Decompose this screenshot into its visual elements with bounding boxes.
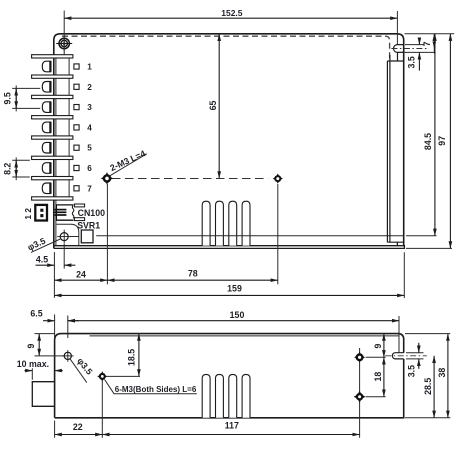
terminal square 3	[74, 105, 79, 110]
vent slot 3 (top view)	[229, 201, 237, 245]
top view case outline	[54, 34, 404, 249]
terminal screw 1	[42, 61, 50, 72]
terminal bar 1	[32, 55, 73, 58]
SVR1 square	[81, 230, 93, 243]
terminal bar 3	[32, 95, 73, 98]
svg-text:4: 4	[87, 123, 92, 132]
leader screw hole (side view)	[35, 355, 64, 357]
svg-text:9.5: 9.5	[3, 92, 13, 104]
terminal square 6	[74, 165, 79, 170]
svg-text:18.5: 18.5	[127, 349, 137, 366]
side view case outline	[55, 334, 404, 418]
CN100 housing	[56, 205, 73, 220]
terminal bar 2	[32, 75, 73, 78]
vent slot 4 (top view)	[242, 201, 250, 245]
vent slot 2 (side view)	[216, 374, 224, 417]
ext top edge left (side view)	[35, 333, 56, 335]
svg-text:65: 65	[208, 101, 218, 111]
centerline mounting holes (side view)	[359, 348, 361, 438]
side view cover lip line	[90, 335, 399, 337]
ext bottom edge right (side view)	[405, 417, 450, 419]
top view inner left wall line	[55, 57, 57, 246]
svg-text:1: 1	[87, 63, 92, 72]
terminal screw 3	[42, 102, 50, 113]
2-pin connector	[35, 205, 47, 221]
terminal screw 5	[42, 142, 50, 153]
svg-text:152.5: 152.5	[221, 8, 243, 18]
terminal screw 7	[42, 183, 50, 194]
ext bottom edge right	[406, 247, 452, 249]
leader dia3.5 (side view)	[70, 359, 87, 383]
dim 10 max	[25, 370, 33, 372]
svg-text:6: 6	[87, 164, 92, 173]
ext line right keyhole	[396, 11, 398, 45]
svg-text:7: 7	[422, 41, 432, 46]
screw hole dia3.5 (side view)	[62, 350, 74, 362]
ext slot bottom	[399, 51, 436, 53]
ext case left down	[53, 252, 55, 298]
ext screw hole up	[67, 316, 69, 339]
dim 22	[55, 434, 103, 436]
CN100 mating bars	[74, 204, 84, 207]
dim 18	[383, 357, 385, 396]
svg-text:5: 5	[87, 144, 92, 153]
dim 3.5 (side view)	[418, 343, 420, 353]
keyhole centerline	[391, 48, 428, 50]
svg-text:SVR1: SVR1	[77, 220, 100, 230]
dim 9 (side view right)	[383, 334, 385, 358]
pcb corner line	[56, 224, 78, 245]
svg-text:38: 38	[437, 368, 447, 378]
terminal square 5	[74, 145, 79, 150]
ext case left up	[54, 315, 56, 340]
dim 150	[68, 320, 399, 322]
M3 hole (side view)	[97, 371, 107, 381]
keyhole slot (side view)	[392, 353, 403, 359]
terminal bar 8	[32, 197, 73, 200]
leader hole B	[366, 396, 386, 398]
M3 hole 1	[101, 172, 114, 185]
mounting hole A (side view)	[354, 352, 365, 363]
hole dia3.5 (top view)	[57, 230, 71, 244]
ext slot top (side view)	[406, 352, 424, 354]
dim 97	[449, 34, 451, 249]
ext M3 down (side view)	[101, 380, 103, 438]
terminal bar 4	[32, 116, 73, 119]
dim 152.5	[64, 17, 397, 19]
ext slot top	[405, 44, 424, 46]
terminal bar 7	[32, 177, 73, 180]
ext keyhole up (side view)	[398, 316, 400, 353]
corner screw hole (top-left)	[56, 36, 72, 52]
terminal body right edge	[68, 56, 70, 199]
vent slot 2 (top view)	[216, 201, 224, 245]
terminal square 1	[74, 64, 79, 69]
terminal screw 2	[42, 82, 50, 93]
ext slot bottom (side view)	[406, 358, 424, 360]
ext M3 hole 1 down	[106, 184, 108, 284]
ext block left	[31, 368, 33, 380]
vent slot 3 (side view)	[229, 374, 237, 417]
flange bar (top view)	[387, 61, 403, 242]
leader 6-M3	[105, 379, 197, 393]
svg-text:84.5: 84.5	[423, 133, 433, 150]
ext top edge right	[405, 33, 455, 35]
svg-text:24: 24	[76, 269, 86, 279]
svg-text:150: 150	[230, 310, 245, 320]
ext inner bottom right	[406, 235, 437, 237]
svg-text:3.5: 3.5	[406, 365, 416, 377]
dim 65	[218, 34, 220, 179]
dim 159	[54, 294, 404, 296]
centerline between M3 holes	[112, 178, 268, 180]
svg-text:18: 18	[373, 372, 383, 382]
terminal bar 5	[32, 136, 73, 139]
keyhole centerline (side view)	[385, 355, 427, 357]
leader bar 7	[12, 176, 30, 178]
ext hole dia3.5 down	[63, 244, 65, 269]
terminal bar 6	[32, 156, 73, 159]
ext top edge right (side view)	[405, 333, 450, 335]
terminal screw 6	[42, 163, 50, 174]
dim 18.5	[138, 334, 140, 377]
vent slot 1 (side view)	[202, 374, 210, 417]
svg-text:8.2: 8.2	[3, 163, 13, 175]
svg-text:159: 159	[227, 284, 242, 294]
M3 hole 2	[273, 174, 283, 184]
svg-text:10 max.: 10 max.	[17, 359, 49, 369]
link hole to pcb	[70, 236, 79, 238]
terminal screw 4	[42, 122, 50, 133]
leader M3 hole (side view)	[107, 375, 140, 377]
ext case right down	[403, 252, 405, 298]
dim 78	[107, 279, 277, 281]
svg-text:78: 78	[188, 269, 198, 279]
leader bar 6	[12, 159, 30, 161]
CN100 pins	[55, 210, 66, 215]
svg-text:3: 3	[87, 103, 92, 112]
terminal square 2	[74, 84, 79, 89]
top view inner bottom line	[96, 235, 403, 237]
svg-text:7: 7	[87, 184, 92, 193]
svg-text:2: 2	[87, 83, 92, 92]
leader terminal 3	[12, 107, 40, 109]
leader 2-M3	[110, 154, 147, 176]
svg-text:97: 97	[437, 136, 447, 146]
svg-text:6.5: 6.5	[30, 309, 42, 319]
dim 117	[102, 434, 359, 436]
svg-text:28.5: 28.5	[423, 378, 433, 395]
svg-text:9: 9	[373, 344, 383, 349]
leader terminal 2	[12, 87, 40, 89]
leader dia3.5	[31, 239, 60, 252]
svg-text:4.5: 4.5	[36, 254, 48, 264]
svg-text:CN100: CN100	[78, 208, 105, 218]
dim 9 (side view left)	[38, 334, 40, 356]
svg-text:1 2: 1 2	[24, 208, 33, 220]
keyhole slot (top view)	[390, 45, 404, 61]
leader hole A	[366, 356, 386, 358]
dim 7	[433, 34, 435, 49]
dim 6.5	[43, 320, 55, 322]
dim 8.2	[15, 157, 17, 180]
svg-text:6-M3(Both Sides) L=6: 6-M3(Both Sides) L=6	[115, 384, 197, 394]
ext case left down (side view)	[54, 421, 56, 438]
top view bottom edge lines	[54, 242, 405, 248]
dim 24	[54, 279, 107, 281]
vent slot 4 (side view)	[242, 374, 250, 417]
top view hidden chassis edge (dashed)	[62, 36, 390, 59]
dim 28.5	[433, 356, 435, 418]
dim 3.5 (top view)	[418, 38, 420, 44]
svg-text:3.5: 3.5	[406, 56, 416, 68]
vent slot 1 (top view)	[202, 201, 210, 245]
dim 9.5	[15, 85, 17, 111]
mounting hole B (side view)	[354, 391, 366, 403]
terminal block (side view)	[32, 382, 54, 407]
ext M3 hole 2 down	[277, 184, 279, 284]
dim 84.5	[434, 34, 436, 236]
terminal square 4	[74, 125, 79, 130]
svg-text:117: 117	[225, 421, 239, 431]
ext line left screw	[63, 11, 65, 57]
svg-text:9: 9	[26, 344, 36, 349]
dim 38	[447, 334, 449, 418]
svg-text:22: 22	[73, 422, 83, 432]
dim 4.5	[36, 264, 55, 266]
terminal square 7	[74, 186, 79, 191]
